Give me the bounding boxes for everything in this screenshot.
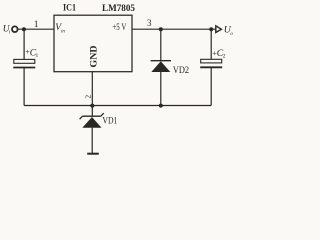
ground <box>87 153 99 155</box>
wire pin2 GND down <box>91 72 93 106</box>
wire C2 bottom to rail <box>210 68 212 106</box>
node VD2 top junction <box>159 27 163 31</box>
terminal Uo arrow <box>216 26 222 33</box>
node C2 top junction <box>209 27 213 31</box>
svg-text:LM7805: LM7805 <box>102 3 135 14</box>
node VD2 bottom junction <box>159 104 163 108</box>
svg-text:3: 3 <box>147 18 152 28</box>
wire bottom rail <box>24 105 211 107</box>
svg-text:in: in <box>61 30 65 35</box>
svg-text:2: 2 <box>223 53 226 59</box>
svg-text:1: 1 <box>36 53 39 59</box>
wire VD2 bottom <box>160 72 162 106</box>
wire C1 bottom to rail <box>23 68 25 106</box>
capacitor C1 plates <box>13 59 35 67</box>
wire C1 branch down <box>23 29 25 59</box>
wire C2 branch down <box>210 29 212 59</box>
wire VD1 top <box>91 106 93 116</box>
capacitor C2 plates <box>200 59 222 67</box>
svg-text:GND: GND <box>89 45 99 67</box>
node input junction <box>22 27 26 31</box>
wire pin3 output rail <box>132 28 216 30</box>
node pin2/VD1 junction <box>90 104 94 108</box>
wire VD2 top <box>160 29 162 60</box>
svg-text:VD2: VD2 <box>173 65 189 76</box>
svg-text:VD1: VD1 <box>102 115 117 126</box>
IC U1 box LM7805 <box>54 15 132 71</box>
terminal Ui circle <box>12 26 18 32</box>
diode VD1 zener <box>80 113 104 128</box>
svg-text:2: 2 <box>83 95 92 99</box>
diode VD2 <box>151 61 171 72</box>
svg-text:1: 1 <box>34 19 39 30</box>
wire pin1 input to box <box>18 28 54 30</box>
wire VD1 bottom to ground <box>91 128 93 153</box>
svg-text:IC1: IC1 <box>63 3 76 14</box>
svg-text:+5 V: +5 V <box>112 22 126 32</box>
